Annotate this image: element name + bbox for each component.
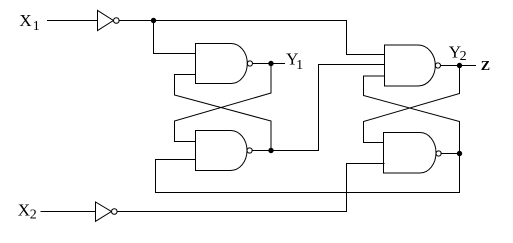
wire X2 input	[41, 211, 95, 213]
label Z	[481, 59, 490, 74]
node Y1bar junction	[269, 148, 273, 152]
wire U1 output	[119, 20, 153, 22]
wire G3 output	[441, 65, 476, 67]
wire Y1bar to G3 middle input	[319, 65, 385, 151]
svg-text:Z: Z	[481, 59, 490, 74]
node Y2bar junction	[457, 151, 461, 155]
inverter U1	[98, 10, 120, 30]
svg-text:1: 1	[296, 58, 303, 73]
wire G4 output cross to G3 bottom input	[364, 76, 460, 154]
NAND gate G3	[385, 45, 441, 86]
wire G1 output	[253, 63, 285, 65]
inverter U2	[96, 202, 118, 221]
label Y1	[286, 50, 303, 73]
label Y2	[449, 42, 467, 63]
wire G2 output	[252, 150, 318, 152]
wire U2 output to G4 bottom input	[117, 164, 384, 212]
wire G4 output	[441, 153, 459, 155]
input label X2	[18, 201, 37, 223]
wire Y1 cross to G2 top input	[175, 64, 272, 142]
NAND gate G4	[384, 133, 442, 174]
wire G2 output cross to G1 bottom input	[175, 75, 272, 151]
NAND gate G1	[196, 44, 253, 84]
wire Y2 cross to G4 top input	[364, 66, 460, 143]
svg-text:2: 2	[460, 49, 467, 64]
svg-text:X: X	[18, 201, 30, 220]
wire X1 input	[48, 20, 98, 22]
wire Y2bar feedback to G2 bottom input	[156, 154, 460, 193]
svg-text:1: 1	[33, 19, 40, 34]
wire node A to G1 top input	[154, 21, 196, 54]
node Y2 junction	[457, 63, 461, 67]
node Y1 junction	[269, 61, 273, 65]
wire node A to G3 top input	[154, 21, 385, 55]
input label X1	[19, 11, 39, 34]
svg-text:2: 2	[30, 208, 37, 223]
NAND gate G2	[196, 131, 253, 171]
svg-text:X: X	[19, 11, 31, 30]
node A junction	[151, 18, 155, 22]
